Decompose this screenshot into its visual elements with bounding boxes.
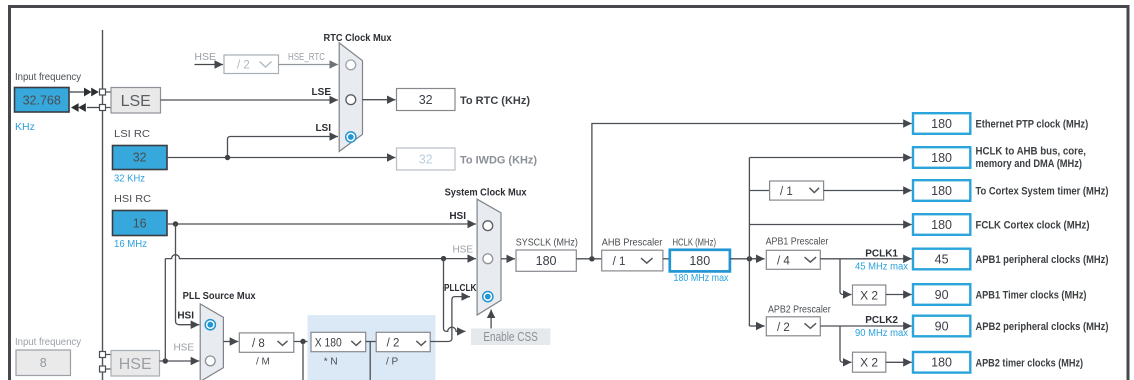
result box Ethernet PTP 180 (913, 113, 970, 134)
result box FCLK 180 (913, 214, 970, 235)
svg-text:180: 180 (931, 218, 952, 232)
prescaler AHB dropdown /1 (602, 250, 663, 271)
prescaler APB1 dropdown /4 (766, 250, 820, 269)
wire LSE to RTC mux (161, 99, 339, 101)
svg-text:/ 1: / 1 (613, 256, 626, 268)
radio HSE pll (205, 356, 215, 366)
oscillator HSE (disabled) (111, 351, 160, 377)
radio HSI pll (selected) (205, 320, 215, 330)
svg-text:180: 180 (931, 184, 952, 198)
wire LSI to IWDG (167, 157, 396, 159)
svg-text:180: 180 (931, 151, 952, 165)
svg-text:LSI RC: LSI RC (114, 129, 150, 140)
svg-text:180: 180 (536, 254, 557, 268)
result box APB1 timer 90 (913, 284, 970, 305)
pin OSC32_OUT (100, 105, 106, 111)
wire X2 APB1 out (886, 294, 912, 296)
radio HSE sys (483, 254, 493, 264)
svg-text:32: 32 (419, 93, 433, 107)
wire PLL M feedback down (302, 342, 304, 380)
result box APB2 timer 180 (913, 352, 970, 373)
wire APB2 timer branch (840, 326, 852, 362)
mux System Clock Mux body (477, 199, 501, 315)
radio LSI (selected) (346, 132, 356, 142)
svg-text:32: 32 (419, 153, 433, 167)
junction HSE out (163, 358, 168, 363)
svg-text:LSI: LSI (315, 123, 331, 134)
wire APB1 timer branch (840, 259, 852, 295)
wire HSI to system clock mux (167, 223, 476, 225)
wire Enable CSS up arrow (490, 310, 492, 329)
svg-text:16: 16 (133, 217, 147, 231)
junction SYSCLK (589, 256, 594, 261)
svg-text:APB1 Prescaler: APB1 Prescaler (766, 237, 829, 248)
svg-text:To RTC (KHz): To RTC (KHz) (460, 95, 530, 107)
multiplier X2 APB2 (853, 352, 886, 372)
svg-text:X 180: X 180 (315, 337, 342, 349)
svg-text:APB1 peripheral clocks (MHz): APB1 peripheral clocks (MHz) (976, 254, 1109, 266)
wire HCLK to APB1 (730, 258, 765, 260)
svg-text:AHB Prescaler: AHB Prescaler (602, 237, 663, 248)
svg-text:To IWDG (KHz): To IWDG (KHz) (460, 155, 537, 167)
Enable CSS button (471, 328, 551, 345)
svg-text:180 MHz max: 180 MHz max (674, 272, 730, 284)
svg-text:/ 2: / 2 (387, 337, 400, 349)
svg-text:PLLCLK: PLLCLK (444, 283, 477, 294)
svg-text:180: 180 (689, 254, 710, 268)
wire N to P (366, 341, 377, 343)
SYSCLK box 180 (516, 250, 576, 271)
wire cortex timer row left (749, 190, 769, 192)
svg-text:To Cortex System timer (MHz): To Cortex System timer (MHz) (976, 186, 1109, 198)
svg-text:/ P: / P (386, 357, 399, 368)
To RTC result box (397, 89, 456, 111)
wire PLL mux output to /M (223, 341, 238, 343)
pin OSC32_IN (100, 89, 106, 95)
HCLK box 180 (highlighted) (670, 250, 730, 272)
svg-text:LSE: LSE (121, 93, 151, 110)
svg-text:HSE: HSE (452, 245, 473, 256)
wire LSI branch up to RTC mux (228, 137, 339, 158)
wire /M to xN (294, 341, 311, 343)
svg-text:PCLK1: PCLK1 (865, 249, 898, 260)
junction HSI (173, 221, 178, 226)
svg-text:FCLK Cortex clock (MHz): FCLK Cortex clock (MHz) (976, 220, 1090, 232)
wire Q branch down (369, 342, 371, 380)
radio HSE_RTC (disabled) (346, 60, 356, 70)
wire CSS branch (hops PLLCLK wire) (444, 259, 466, 332)
divider HSE_RTC /2 (disabled dropdown) (224, 55, 279, 74)
wire HSI down to PLL mux (hops HSE wire) (176, 224, 200, 325)
svg-text:HSE_RTC: HSE_RTC (288, 52, 325, 63)
wire HCLK AHB bus row (749, 157, 911, 159)
multiplier X2 APB1 (853, 285, 886, 305)
mux RTC Clock Mux body (339, 43, 362, 151)
svg-text:180: 180 (931, 356, 952, 370)
svg-text:/ 4: / 4 (777, 255, 790, 267)
wire pin stubs to LSE (106, 91, 112, 93)
wire SYSCLK to AHB prescaler (576, 258, 601, 260)
wire X2 APB2 out (886, 361, 912, 363)
wire HSE rail up (164, 259, 166, 361)
result box APB2 peripheral 90 (913, 316, 970, 337)
junction PLL M (300, 339, 305, 344)
wire HCLK vertical rail (748, 158, 750, 327)
result box HCLK AHB 180 (913, 147, 970, 168)
svg-text:PCLK2: PCLK2 (865, 315, 898, 326)
oscillator LSI RC box 32 (113, 146, 168, 170)
svg-text:90 MHz max: 90 MHz max (855, 327, 909, 339)
junction LSI branch (225, 155, 230, 160)
wire HSE box output to PLL mux (160, 360, 200, 362)
svg-text:90: 90 (935, 319, 949, 333)
radio PLLCLK (selected) (483, 292, 493, 302)
svg-text:8: 8 (40, 356, 47, 370)
oscillator LSE (111, 88, 161, 114)
svg-text:45 MHz max: 45 MHz max (855, 261, 909, 273)
multiplier *N dropdown X 180 (311, 332, 366, 351)
result box cortex timer 180 (913, 180, 970, 201)
svg-text:HSI: HSI (449, 211, 466, 222)
junction HCLK (747, 256, 752, 261)
svg-text:/ 1: / 1 (780, 186, 793, 198)
svg-text:LSE: LSE (312, 87, 332, 98)
svg-text:APB2 peripheral clocks (MHz): APB2 peripheral clocks (MHz) (976, 321, 1109, 333)
radio LSE (346, 95, 356, 105)
svg-text:Input frequency: Input frequency (15, 72, 81, 83)
pin OSC_IN (100, 352, 106, 358)
To IWDG result box (disabled) (397, 148, 456, 170)
mux PLL Source Mux body (200, 304, 223, 380)
svg-text:/ 8: / 8 (252, 338, 265, 350)
svg-text:HCLK (MHz): HCLK (MHz) (673, 237, 717, 248)
svg-text:HSE: HSE (119, 356, 152, 373)
oscillator HSI RC box 16 (113, 211, 168, 236)
wire APB1 out (PCLK1) (820, 258, 912, 260)
svg-text:X 2: X 2 (860, 356, 878, 370)
svg-text:16 MHz: 16 MHz (114, 238, 147, 250)
prescaler cortex dropdown /1 (770, 181, 824, 200)
svg-text:/ M: / M (256, 357, 270, 368)
svg-text:HSE: HSE (194, 51, 216, 63)
wire HSE_RTC to RTC mux (279, 64, 339, 66)
svg-text:/ 2: / 2 (777, 322, 790, 334)
svg-text:memory and DMA (MHz): memory and DMA (MHz) (976, 158, 1083, 170)
svg-text:System Clock Mux: System Clock Mux (445, 188, 527, 199)
svg-text:32: 32 (133, 151, 147, 165)
svg-text:32.768: 32.768 (23, 94, 61, 108)
svg-text:HSI RC: HSI RC (114, 194, 151, 205)
PLL panel (308, 315, 436, 380)
wire HSE stub into /2 (195, 64, 224, 66)
svg-text:/ 2: / 2 (237, 60, 250, 72)
wire Ethernet PTP branch (592, 124, 912, 259)
svg-text:RTC Clock Mux: RTC Clock Mux (324, 33, 392, 44)
wire FCLK row (749, 224, 911, 226)
wire: out of OSC32_OUT double arrows (87, 107, 100, 109)
svg-text:45: 45 (935, 252, 949, 266)
svg-text:APB2 Prescaler: APB2 Prescaler (768, 304, 831, 315)
wire APB2 feed (749, 325, 764, 327)
divider /P dropdown /2 (376, 332, 430, 351)
radio HSI sys (483, 221, 493, 231)
svg-text:32 KHz: 32 KHz (114, 173, 145, 185)
wire SYSCLK output (501, 258, 515, 260)
svg-text:KHz: KHz (15, 121, 35, 133)
wire HSE to system clock mux (165, 255, 476, 259)
svg-text:180: 180 (931, 117, 952, 131)
svg-text:HSE: HSE (173, 343, 194, 354)
svg-text:HSI: HSI (177, 311, 194, 322)
wire APB2 out (PCLK2) (820, 325, 912, 327)
pin OSC_OUT (100, 366, 106, 372)
divider /M dropdown /8 (239, 333, 293, 352)
svg-text:PLL Source Mux: PLL Source Mux (183, 291, 256, 302)
wire: into OSC32_IN double arrows (69, 91, 85, 93)
wire pin stubs to HSE (106, 354, 112, 356)
wire PLLCLK up to system clock mux (430, 297, 470, 342)
HSE input frequency box 8 (disabled) (16, 350, 71, 376)
svg-text:SYSCLK (MHz): SYSCLK (MHz) (516, 237, 578, 248)
svg-text:X 2: X 2 (860, 288, 878, 302)
LSE input frequency box 32.768 (15, 88, 70, 113)
wire RTC mux output (363, 99, 396, 101)
svg-text:APB1 Timer clocks (MHz): APB1 Timer clocks (MHz) (976, 290, 1087, 302)
junction HSE css branch (441, 256, 446, 261)
wire cortex timer row right (824, 190, 912, 192)
prescaler APB2 dropdown /2 (766, 317, 820, 336)
result box APB1 peripheral 45 (913, 249, 970, 270)
svg-text:* N: * N (324, 357, 338, 368)
svg-text:HCLK to AHB bus, core,: HCLK to AHB bus, core, (976, 146, 1087, 158)
svg-text:APB2 timer clocks (MHz): APB2 timer clocks (MHz) (976, 357, 1084, 369)
MCU pin rail (102, 30, 104, 380)
svg-text:Enable CSS: Enable CSS (483, 330, 538, 344)
svg-text:90: 90 (935, 288, 949, 302)
wire AHB to HCLK (663, 258, 670, 260)
svg-text:Ethernet PTP clock (MHz): Ethernet PTP clock (MHz) (976, 119, 1089, 131)
svg-text:Input frequency: Input frequency (15, 337, 81, 348)
